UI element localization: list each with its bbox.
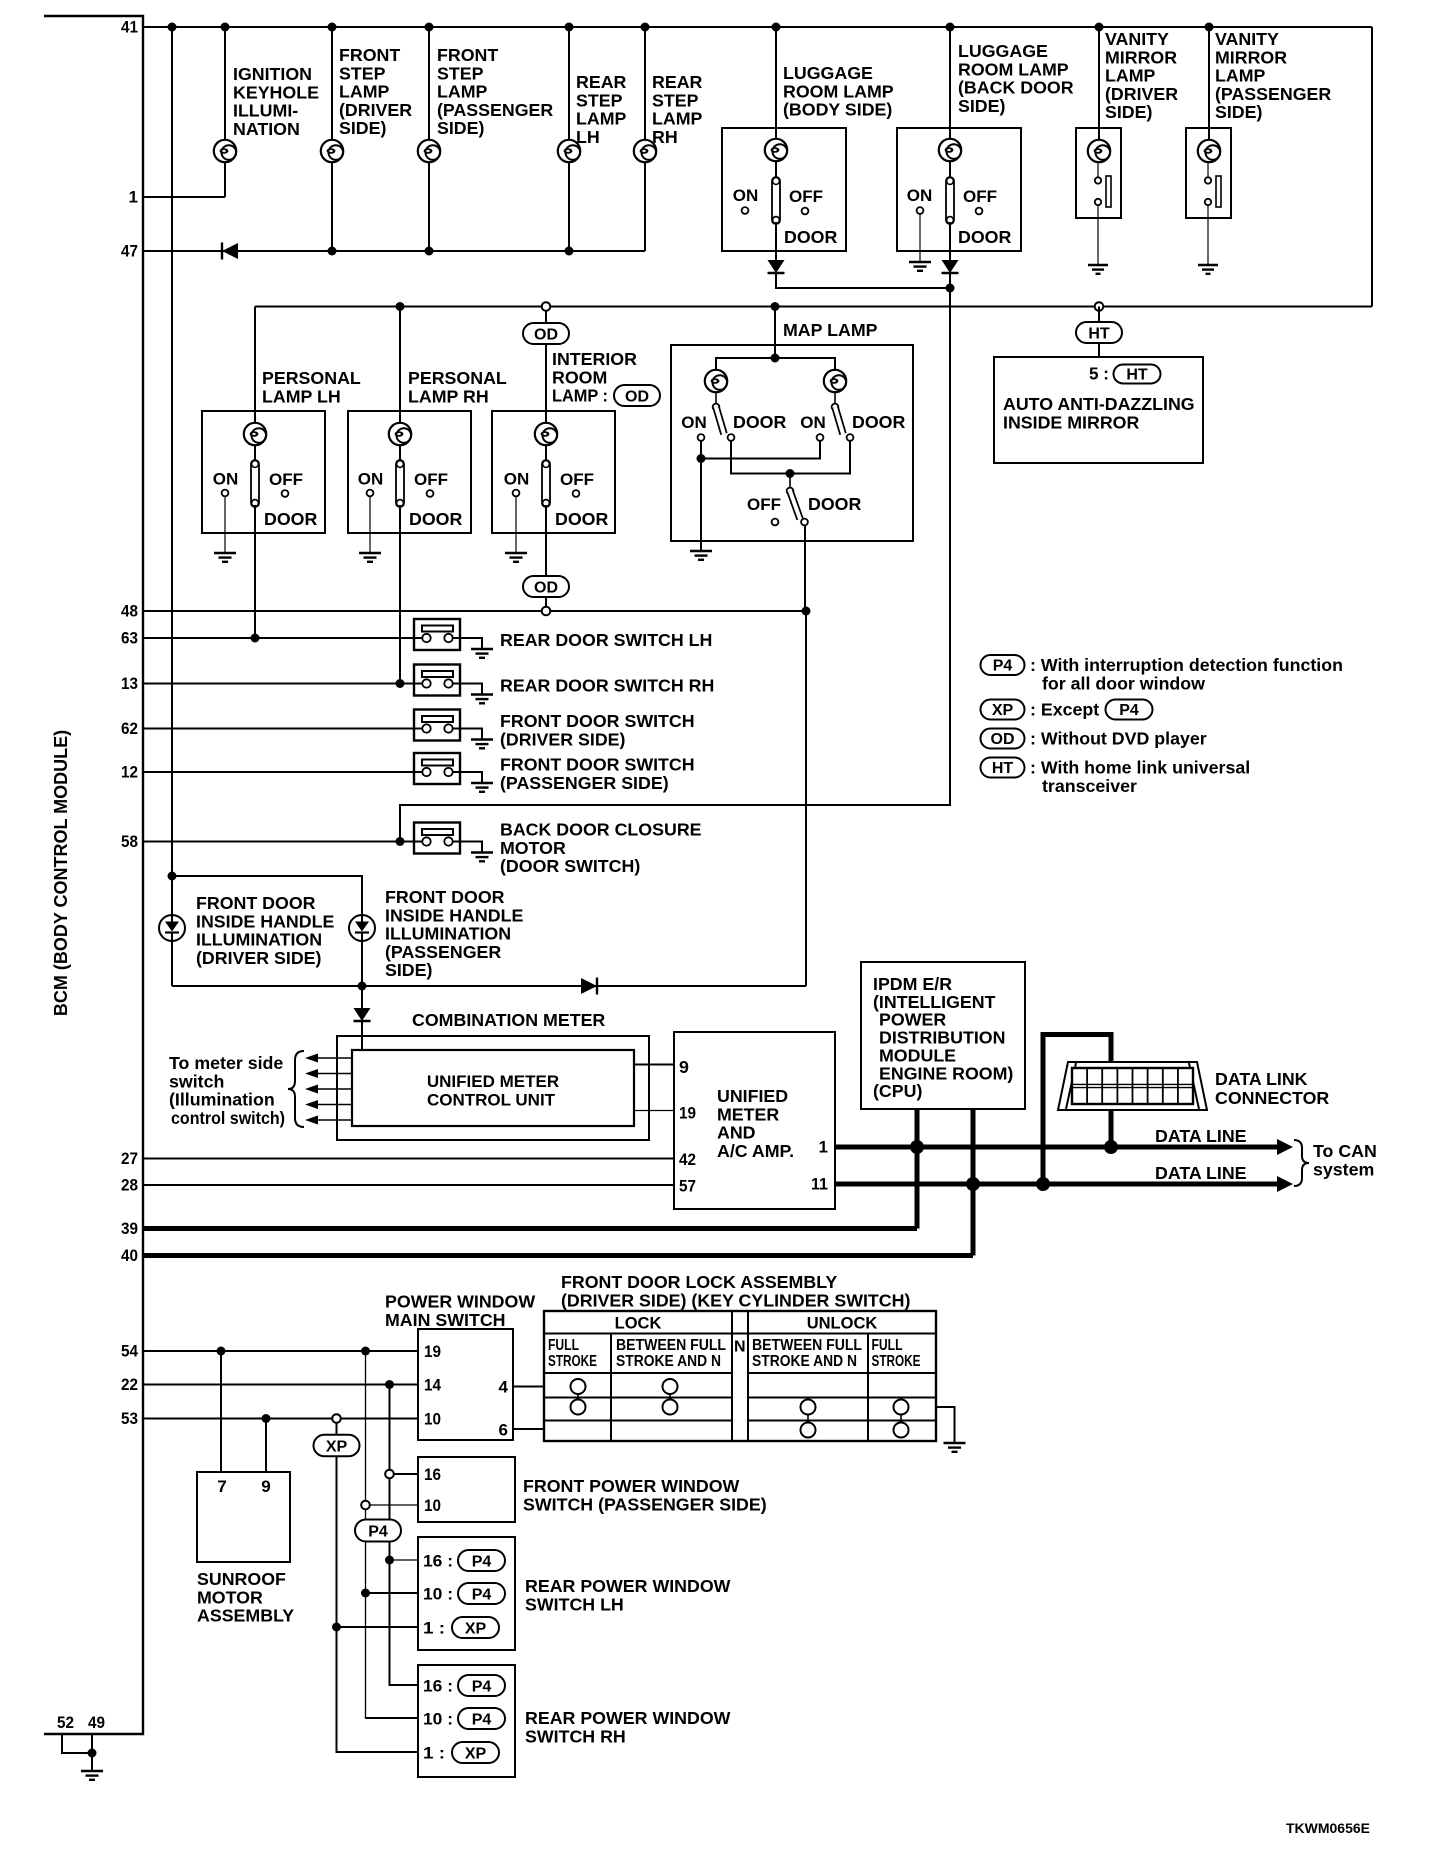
lamp rear step LH bbox=[558, 140, 580, 162]
wire map lamp top rail bbox=[716, 358, 835, 381]
junction inside map lamp bbox=[771, 354, 780, 363]
svg-text:ROOM LAMP: ROOM LAMP bbox=[958, 59, 1069, 79]
wire pin 12 row bbox=[143, 771, 423, 773]
svg-text:(Illumination: (Illumination bbox=[169, 1090, 275, 1110]
map lamp box bbox=[671, 345, 913, 541]
junction pin54/vert bbox=[361, 1347, 370, 1356]
wire pin 48 row bbox=[143, 610, 806, 612]
svg-text:XP: XP bbox=[326, 1439, 348, 1456]
svg-text:OFF: OFF bbox=[414, 470, 448, 489]
svg-text:52: 52 bbox=[57, 1713, 74, 1732]
svg-text:N: N bbox=[734, 1339, 746, 1356]
svg-text:INSIDE HANDLE: INSIDE HANDLE bbox=[196, 911, 334, 931]
svg-text:SIDE): SIDE) bbox=[1105, 102, 1153, 122]
switch luggage body side bbox=[772, 177, 780, 224]
svg-text:MIRROR: MIRROR bbox=[1215, 47, 1287, 67]
svg-text:54: 54 bbox=[121, 1342, 138, 1361]
wire pin 39 row (CAN thick) bbox=[143, 1226, 917, 1231]
contact OFF bbox=[976, 208, 983, 215]
handle illumination frame bbox=[172, 876, 362, 986]
sunroof motor assembly box bbox=[197, 1472, 290, 1562]
wire left edge bbox=[171, 876, 173, 986]
junction room bus map lamp bbox=[771, 302, 780, 311]
arrow data line 1 bbox=[1277, 1139, 1293, 1155]
svg-text:DATA LINE: DATA LINE bbox=[1155, 1163, 1247, 1183]
wire rear step lamp LH vertical bbox=[568, 27, 570, 251]
svg-text:FRONT DOOR SWITCH: FRONT DOOR SWITCH bbox=[500, 755, 695, 775]
svg-text:DOOR: DOOR bbox=[264, 509, 318, 529]
svg-text:41: 41 bbox=[121, 18, 138, 37]
svg-text:16 :: 16 : bbox=[423, 1677, 453, 1696]
svg-text:XP: XP bbox=[992, 702, 1014, 719]
junction 41 bbox=[1205, 23, 1214, 32]
wire to LH pin16 bbox=[390, 1559, 419, 1561]
rear door switch LH bbox=[414, 619, 460, 650]
brace to CAN system bbox=[1294, 1140, 1309, 1186]
svg-text:BETWEEN FULL: BETWEEN FULL bbox=[752, 1337, 862, 1354]
lamp front step driver bbox=[321, 140, 343, 162]
wire map DOOR out to pin 48 row bbox=[804, 525, 806, 611]
contact DOOR bbox=[801, 519, 808, 526]
junction bottom bbox=[358, 982, 367, 991]
wire corner B bbox=[390, 1684, 419, 1685]
svg-text:ON: ON bbox=[733, 186, 759, 205]
junction top left bbox=[168, 872, 177, 881]
svg-text:UNLOCK: UNLOCK bbox=[807, 1315, 878, 1333]
svg-text:19: 19 bbox=[424, 1342, 441, 1361]
svg-text:47: 47 bbox=[121, 242, 138, 261]
BCM (Body Control Module) outline bbox=[44, 16, 143, 1734]
rear power window switch LH box bbox=[418, 1537, 515, 1650]
svg-text:SIDE): SIDE) bbox=[437, 118, 485, 138]
svg-text:28: 28 bbox=[121, 1176, 138, 1195]
wire diode down to back-door-motor link bbox=[400, 273, 950, 842]
LED front door inside handle passenger bbox=[349, 915, 375, 941]
wire vanity vertical bbox=[1098, 27, 1100, 140]
wire right edge from pin41 bus down bbox=[1371, 27, 1373, 307]
svg-text:BACK DOOR CLOSURE: BACK DOOR CLOSURE bbox=[500, 820, 702, 840]
svg-text:STEP: STEP bbox=[339, 63, 386, 83]
svg-text:ROOM: ROOM bbox=[552, 367, 607, 387]
wire personal LH to pin 63 bbox=[254, 533, 256, 638]
svg-text:LH: LH bbox=[576, 127, 600, 147]
wire pin48 junction down bbox=[805, 611, 807, 986]
svg-text:DOOR: DOOR bbox=[958, 227, 1012, 247]
vanity mirror lamp (driver side) box bbox=[1076, 128, 1121, 218]
wire ignition keyhole vertical bbox=[224, 27, 226, 197]
svg-text:XP: XP bbox=[465, 1745, 487, 1762]
svg-text:P4: P4 bbox=[472, 1553, 492, 1570]
svg-text:(PASSENGER: (PASSENGER bbox=[385, 942, 501, 962]
switch luggage back door side bbox=[946, 177, 954, 224]
svg-text:OD: OD bbox=[534, 579, 558, 596]
contact ON bbox=[917, 207, 924, 214]
map switch LH bbox=[715, 392, 717, 404]
svg-text:PERSONAL: PERSONAL bbox=[408, 368, 507, 388]
svg-text:: Without DVD player: : Without DVD player bbox=[1030, 729, 1207, 749]
junction 41 bbox=[641, 23, 650, 32]
svg-text:FRONT DOOR: FRONT DOOR bbox=[385, 887, 505, 907]
svg-text:ON: ON bbox=[213, 470, 239, 489]
svg-text:FRONT: FRONT bbox=[437, 45, 498, 65]
svg-text:OFF: OFF bbox=[747, 495, 781, 514]
lamp luggage body side bbox=[765, 139, 787, 161]
svg-text:48: 48 bbox=[121, 602, 138, 621]
svg-text:ON: ON bbox=[358, 470, 384, 489]
junction 47 bbox=[425, 247, 434, 256]
svg-text:P4: P4 bbox=[472, 1586, 492, 1603]
wire switch to diode bbox=[775, 222, 777, 260]
svg-text:INSIDE MIRROR: INSIDE MIRROR bbox=[1003, 412, 1139, 432]
contact DOOR LH bbox=[728, 434, 735, 441]
wire pin 22 row bbox=[143, 1384, 418, 1386]
junction room bus RH bbox=[396, 302, 405, 311]
CAN vertical IPDM to line1/pin39 bbox=[915, 1109, 920, 1229]
svg-text:ROOM LAMP: ROOM LAMP bbox=[783, 81, 894, 101]
svg-text:: Except: : Except bbox=[1030, 700, 1099, 720]
legend XP P4 oval bbox=[1106, 700, 1153, 720]
svg-text:transceiver: transceiver bbox=[1042, 776, 1137, 796]
svg-text:LAMP: LAMP bbox=[437, 82, 488, 102]
diode luggage body side bbox=[768, 260, 785, 273]
auto anti-dazzling inside mirror box bbox=[994, 357, 1203, 463]
personal lamp RH box + switch bbox=[348, 411, 471, 533]
vanity mirror lamp (passenger side) box bbox=[1186, 128, 1231, 218]
svg-text:OFF: OFF bbox=[269, 470, 303, 489]
svg-text:(DRIVER SIDE): (DRIVER SIDE) bbox=[500, 729, 626, 749]
svg-text:(DRIVER: (DRIVER bbox=[1105, 84, 1178, 104]
svg-text:OFF: OFF bbox=[963, 187, 997, 206]
svg-text:5 :: 5 : bbox=[1089, 364, 1109, 384]
map switch RH bbox=[834, 392, 836, 404]
svg-text:LAMP: LAMP bbox=[1105, 66, 1156, 86]
svg-text:22: 22 bbox=[121, 1375, 138, 1394]
junction pin 63 bbox=[251, 634, 260, 643]
svg-text:9: 9 bbox=[261, 1477, 270, 1496]
P4 oval on option verticals bbox=[355, 1520, 401, 1542]
svg-text:OD: OD bbox=[991, 731, 1015, 748]
junction pin53/sunroof bbox=[262, 1414, 271, 1423]
wire pin 27 row bbox=[143, 1158, 674, 1160]
svg-text:FRONT POWER WINDOW: FRONT POWER WINDOW bbox=[523, 1476, 740, 1496]
rear door switch RH bbox=[414, 665, 460, 696]
unified meter control unit box bbox=[352, 1050, 634, 1126]
mirror switch bar bbox=[1106, 176, 1111, 207]
svg-text:ON: ON bbox=[681, 413, 707, 432]
junction 1:XP LH bbox=[332, 1623, 341, 1632]
lamp front step passenger bbox=[418, 140, 440, 162]
wire pin 49 bbox=[91, 1734, 93, 1771]
legend OD oval bbox=[981, 729, 1025, 749]
lamp map RH bbox=[824, 370, 846, 392]
wire pin 40 row (CAN thick) bbox=[143, 1253, 973, 1258]
wire corner A bbox=[366, 1717, 419, 1718]
svg-text:62: 62 bbox=[121, 719, 138, 738]
svg-text:DOOR: DOOR bbox=[852, 412, 906, 432]
connector circle on bus (OD) bbox=[542, 302, 551, 311]
svg-text:STEP: STEP bbox=[652, 90, 699, 110]
CAN data line 1 bbox=[835, 1145, 1286, 1150]
wire rear step lamp RH vertical bbox=[644, 27, 646, 251]
front door switch driver bbox=[414, 710, 460, 741]
svg-text:VANITY: VANITY bbox=[1215, 29, 1279, 49]
wire DOOR contacts tie bbox=[731, 441, 850, 474]
key cylinder switch table bbox=[544, 1311, 936, 1441]
wire corner C bbox=[337, 1751, 419, 1752]
svg-text:10: 10 bbox=[424, 1410, 441, 1429]
svg-text:REAR: REAR bbox=[576, 72, 627, 92]
svg-text:39: 39 bbox=[121, 1219, 138, 1238]
wire bottom rail bbox=[172, 985, 806, 987]
svg-text:13: 13 bbox=[121, 674, 138, 693]
svg-text:MAIN SWITCH: MAIN SWITCH bbox=[385, 1310, 506, 1330]
svg-text:(PASSENGER: (PASSENGER bbox=[1215, 84, 1331, 104]
svg-text:STROKE: STROKE bbox=[872, 1353, 921, 1370]
wire OD oval to pin 48 row bbox=[545, 597, 547, 607]
contact DOOR RH bbox=[847, 434, 854, 441]
wire switch to diode bbox=[949, 222, 951, 260]
svg-text:for all door window: for all door window bbox=[1042, 674, 1205, 694]
wire bus to map lamp bbox=[774, 307, 776, 359]
svg-text:SIDE): SIDE) bbox=[339, 118, 387, 138]
svg-text:14: 14 bbox=[424, 1376, 441, 1395]
svg-text:7: 7 bbox=[217, 1477, 226, 1496]
junction map out at pin48 bbox=[802, 607, 811, 616]
svg-text:LAMP :: LAMP : bbox=[552, 386, 608, 406]
wire to LH pin10 bbox=[366, 1592, 419, 1594]
svg-text:10: 10 bbox=[424, 1496, 441, 1515]
svg-text:NATION: NATION bbox=[233, 119, 300, 139]
wire diode to link bbox=[776, 273, 950, 288]
interior room lamp box + switch bbox=[492, 411, 615, 533]
wire meter pin 19 stub bbox=[634, 1110, 674, 1112]
svg-text:STEP: STEP bbox=[576, 90, 623, 110]
wire ON contacts tie bbox=[701, 441, 820, 459]
svg-text:BCM (BODY CONTROL MODULE): BCM (BODY CONTROL MODULE) bbox=[51, 730, 71, 1016]
wire personal RH to pin 13 bbox=[399, 533, 401, 684]
svg-text:DOOR: DOOR bbox=[733, 412, 787, 432]
lamp ignition keyhole bbox=[214, 140, 236, 162]
diode on bottom rail bbox=[581, 978, 597, 995]
svg-text:LUGGAGE: LUGGAGE bbox=[783, 63, 873, 83]
wire meter pin 9 stub bbox=[634, 1064, 674, 1066]
junction ON tie bbox=[697, 454, 706, 463]
svg-text:FRONT DOOR SWITCH: FRONT DOOR SWITCH bbox=[500, 711, 695, 731]
svg-text:P4: P4 bbox=[472, 1678, 492, 1695]
connector circle on pin48 row (OD) bbox=[542, 607, 551, 616]
svg-text:MAP LAMP: MAP LAMP bbox=[783, 320, 878, 340]
wire bus to HT oval bbox=[1098, 307, 1100, 325]
wire room-lamp bus bbox=[255, 306, 1372, 308]
lamp luggage back door side bbox=[939, 139, 961, 161]
svg-text:12: 12 bbox=[121, 763, 138, 782]
diode to combination meter bbox=[354, 1008, 371, 1021]
svg-text:HT: HT bbox=[992, 760, 1014, 777]
svg-text:LAMP: LAMP bbox=[1215, 66, 1266, 86]
wire vertical B to RH pin16 bbox=[390, 1684, 419, 1686]
wire lamp to switch bbox=[775, 161, 777, 179]
svg-text:57: 57 bbox=[679, 1177, 696, 1196]
junction 41/keyhole bbox=[221, 23, 230, 32]
legend P4 oval bbox=[981, 655, 1025, 675]
wire option vertical C (XP) bbox=[336, 1456, 338, 1752]
svg-text:: With interruption detection: : With interruption detection function bbox=[1030, 655, 1343, 675]
brace to meter side switch bbox=[288, 1051, 304, 1127]
svg-text:SIDE): SIDE) bbox=[958, 96, 1006, 116]
svg-text:IGNITION: IGNITION bbox=[233, 64, 312, 84]
svg-text:POWER WINDOW: POWER WINDOW bbox=[385, 1292, 535, 1312]
svg-text:58: 58 bbox=[121, 832, 138, 851]
contact ON bbox=[742, 207, 749, 214]
svg-text:PERSONAL: PERSONAL bbox=[262, 368, 361, 388]
OD oval lower bbox=[523, 576, 569, 597]
wire pin 47 row bbox=[143, 250, 645, 252]
svg-text:SWITCH (PASSENGER SIDE): SWITCH (PASSENGER SIDE) bbox=[523, 1494, 767, 1514]
combination meter outer box bbox=[337, 1036, 649, 1140]
junction CAN bbox=[1104, 1140, 1118, 1154]
wire pin 41 top bus bbox=[143, 26, 1372, 28]
wire front step lamp passenger vertical bbox=[428, 27, 430, 251]
svg-text:DOOR: DOOR bbox=[409, 509, 463, 529]
CAN data line 2 bbox=[835, 1182, 1286, 1187]
svg-text:CONNECTOR: CONNECTOR bbox=[1215, 1088, 1329, 1108]
HT oval bbox=[1076, 322, 1122, 343]
CAN branch to DLC bbox=[1043, 1035, 1111, 1185]
junction CAN bbox=[966, 1177, 980, 1191]
contact ON LH bbox=[698, 434, 705, 441]
junction 41 bbox=[565, 23, 574, 32]
svg-text:(DOOR SWITCH): (DOOR SWITCH) bbox=[500, 856, 640, 876]
junction 41 bbox=[328, 23, 337, 32]
svg-text:BETWEEN FULL: BETWEEN FULL bbox=[616, 1337, 726, 1354]
svg-text:19: 19 bbox=[679, 1104, 696, 1123]
svg-text:40: 40 bbox=[121, 1246, 138, 1265]
svg-text:9: 9 bbox=[679, 1057, 689, 1077]
svg-text:To CAN: To CAN bbox=[1313, 1141, 1377, 1161]
svg-text:(PASSENGER: (PASSENGER bbox=[437, 100, 553, 120]
svg-text:10 :: 10 : bbox=[423, 1710, 453, 1729]
legend HT oval bbox=[981, 758, 1025, 778]
svg-text:16: 16 bbox=[424, 1465, 441, 1484]
svg-text:ON: ON bbox=[800, 413, 826, 432]
svg-text:LAMP: LAMP bbox=[339, 82, 390, 102]
svg-text:1 :: 1 : bbox=[423, 1744, 445, 1763]
ground key cylinder bbox=[944, 1443, 966, 1452]
svg-text:OFF: OFF bbox=[789, 187, 823, 206]
wire pin 58 row bbox=[143, 841, 423, 843]
svg-text:OFF: OFF bbox=[560, 470, 594, 489]
svg-text:DOOR: DOOR bbox=[808, 494, 862, 514]
svg-text:ILLUMI-: ILLUMI- bbox=[233, 101, 298, 121]
front power window switch box bbox=[418, 1457, 515, 1522]
wire luggage body vertical bbox=[775, 27, 777, 139]
contact ON RH bbox=[817, 434, 824, 441]
wire lamp to switch bbox=[949, 161, 951, 179]
svg-text:6: 6 bbox=[499, 1421, 508, 1440]
junction 47 bbox=[565, 247, 574, 256]
svg-text:MOTOR: MOTOR bbox=[197, 1587, 263, 1607]
wire luggage back door vertical bbox=[949, 27, 951, 139]
wire ON to ground bbox=[919, 214, 921, 262]
lamp map LH bbox=[705, 370, 727, 392]
wire pin 62 row bbox=[143, 728, 423, 730]
svg-text:STEP: STEP bbox=[437, 63, 484, 83]
svg-text:ILLUMINATION: ILLUMINATION bbox=[196, 930, 322, 950]
wire pin 6 to table bbox=[513, 1428, 544, 1430]
svg-text:TKWM0656E: TKWM0656E bbox=[1286, 1820, 1370, 1836]
svg-text:AND: AND bbox=[717, 1123, 756, 1143]
junction 41 bbox=[1095, 23, 1104, 32]
svg-text:ON: ON bbox=[907, 186, 933, 205]
wire table to ground bbox=[936, 1407, 955, 1443]
arrow data line 2 bbox=[1277, 1176, 1293, 1192]
svg-text:ILLUMINATION: ILLUMINATION bbox=[385, 924, 511, 944]
svg-text:SIDE): SIDE) bbox=[1215, 102, 1263, 122]
svg-text:LAMP: LAMP bbox=[576, 109, 627, 129]
svg-text:OD: OD bbox=[534, 326, 558, 343]
svg-text:FRONT: FRONT bbox=[339, 45, 400, 65]
svg-text:REAR DOOR SWITCH RH: REAR DOOR SWITCH RH bbox=[500, 676, 714, 696]
IPDM E/R box bbox=[861, 962, 1025, 1109]
contact lower bbox=[1095, 199, 1101, 205]
diode on pin 47 row bbox=[222, 243, 238, 260]
luggage room lamp (body side) box bbox=[722, 128, 846, 251]
front door switch passenger bbox=[414, 753, 460, 784]
contact upper bbox=[1095, 177, 1101, 183]
connector circle on bus (HT) bbox=[1095, 302, 1104, 311]
svg-text:(DRIVER SIDE): (DRIVER SIDE) bbox=[196, 948, 322, 968]
lock table contacts bbox=[571, 1379, 586, 1394]
svg-text:(DRIVER SIDE) (KEY CYLINDER SW: (DRIVER SIDE) (KEY CYLINDER SWITCH) bbox=[561, 1290, 910, 1310]
wire option vertical A bbox=[365, 1351, 367, 1718]
wire pin 52 bbox=[62, 1734, 92, 1753]
svg-text:switch: switch bbox=[169, 1071, 224, 1091]
wire circle to box pin10 bbox=[369, 1504, 418, 1506]
contact OFF bbox=[772, 519, 779, 526]
svg-text:4: 4 bbox=[499, 1378, 509, 1397]
lamp rear step RH bbox=[634, 140, 656, 162]
svg-text:REAR POWER WINDOW: REAR POWER WINDOW bbox=[525, 1708, 731, 1728]
wire contact to ground bbox=[1207, 205, 1209, 265]
svg-text:METER: METER bbox=[717, 1104, 779, 1124]
svg-text:53: 53 bbox=[121, 1409, 138, 1428]
back door closure motor switch bbox=[414, 823, 460, 854]
svg-text:SWITCH LH: SWITCH LH bbox=[525, 1594, 624, 1614]
wire pin 13 row bbox=[143, 683, 423, 685]
svg-text:RH: RH bbox=[652, 127, 678, 147]
contact upper bbox=[1205, 177, 1211, 183]
svg-text:(BODY SIDE): (BODY SIDE) bbox=[783, 100, 892, 120]
junction diode link bbox=[946, 284, 955, 293]
unified meter and A/C amp box bbox=[674, 1032, 835, 1209]
wire interior lamp to OD lower bbox=[545, 533, 547, 576]
junction 47 bbox=[328, 247, 337, 256]
contact lower bbox=[1205, 199, 1211, 205]
wire pin 63 row bbox=[143, 637, 423, 639]
connector circle pin10 row bbox=[361, 1501, 370, 1510]
rear power window switch RH box bbox=[418, 1665, 515, 1777]
svg-text:LAMP LH: LAMP LH bbox=[262, 386, 341, 406]
wire contact to ground bbox=[1097, 205, 1099, 265]
mirror switch bar bbox=[1216, 176, 1221, 207]
svg-text:49: 49 bbox=[88, 1713, 105, 1732]
data link connector bbox=[1058, 1062, 1207, 1110]
wire to sunroof pin 9 bbox=[265, 1419, 267, 1473]
wire ON tie to ground bbox=[700, 459, 702, 552]
wire pin 28 row bbox=[143, 1184, 674, 1186]
svg-text:XP: XP bbox=[465, 1620, 487, 1637]
junction 10:P4 LH bbox=[361, 1589, 370, 1598]
